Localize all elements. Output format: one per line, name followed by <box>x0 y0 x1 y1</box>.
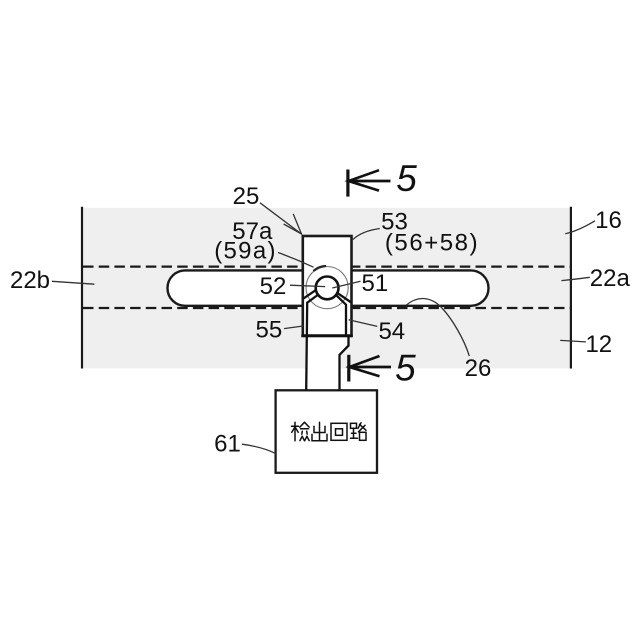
leader 55 <box>284 326 304 329</box>
section arrow 5 top: barbs <box>349 170 380 190</box>
wall 16 right border line <box>570 207 572 369</box>
svg-text:51: 51 <box>362 270 389 297</box>
svg-text:12: 12 <box>585 331 612 358</box>
leader 61 <box>242 444 276 454</box>
svg-text:52: 52 <box>260 273 287 300</box>
block bottom bold edge 55 <box>301 334 352 337</box>
svg-text:26: 26 <box>465 355 492 382</box>
substrate 12 shaded band <box>83 208 571 369</box>
svg-text:5: 5 <box>395 348 416 389</box>
kanji 検 <box>292 422 310 441</box>
magnet 51 bold circle <box>316 277 339 300</box>
section arrow 5 top: tick <box>346 170 349 197</box>
leader 54 <box>349 320 378 327</box>
holder 54 right outer slant <box>336 292 351 302</box>
leader 52 <box>290 285 325 286</box>
leader 16 <box>565 221 595 234</box>
section arrow 5 bottom: tick <box>347 355 350 382</box>
svg-text:25: 25 <box>233 183 260 210</box>
leader 59a <box>278 253 314 268</box>
slot 26 stadium opening <box>168 270 489 305</box>
svg-text:55: 55 <box>256 317 283 344</box>
svg-text:16: 16 <box>595 207 622 234</box>
section arrow 5 bottom: barbs <box>349 356 379 376</box>
block 53 (56+58) <box>303 236 352 336</box>
lens 59a thickened arc on ring <box>314 266 325 270</box>
stem right edge with jog <box>340 335 349 391</box>
svg-text:5: 5 <box>396 158 417 199</box>
ring 57a thin circle <box>306 267 348 309</box>
kanji 出 <box>312 422 327 441</box>
svg-text:(59a): (59a) <box>214 238 277 265</box>
leader 22b <box>52 281 94 284</box>
dashed line 22b upper <box>83 266 570 268</box>
kanji 回 <box>331 423 347 440</box>
stem white fill <box>307 334 348 390</box>
wall left border line <box>81 207 83 369</box>
holder 54 left wall and stem left edge <box>306 294 319 390</box>
svg-text:22b: 22b <box>10 267 50 294</box>
leader 26 <box>406 299 469 356</box>
kanji 路 <box>351 423 367 441</box>
dashed line 22a lower <box>83 307 570 309</box>
svg-text:(56+58): (56+58) <box>385 229 479 256</box>
holder 54 left outer slant <box>303 290 316 299</box>
leader 12 <box>560 340 586 342</box>
leader 53 <box>353 229 380 240</box>
svg-text:54: 54 <box>378 318 405 345</box>
svg-text:22a: 22a <box>590 265 631 292</box>
detection circuit box 61 <box>276 390 377 473</box>
leader 22a <box>561 277 589 280</box>
section arrow 5 top: shaft <box>349 180 391 183</box>
section arrow 5 bottom: shaft <box>350 366 391 369</box>
svg-text:61: 61 <box>214 430 241 457</box>
leader 25 with arrowhead <box>260 203 302 234</box>
leader 51 <box>332 281 360 288</box>
holder 54 right inner wall <box>335 294 346 336</box>
